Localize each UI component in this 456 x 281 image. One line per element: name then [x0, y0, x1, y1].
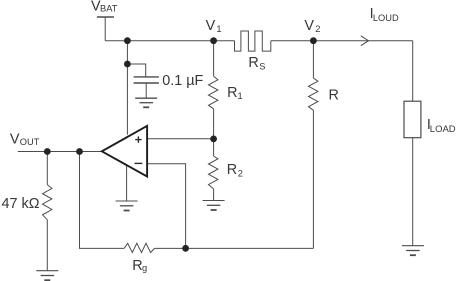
svg-text:V: V — [304, 18, 314, 34]
svg-text:0.1 µF: 0.1 µF — [162, 73, 203, 89]
svg-text:2: 2 — [238, 168, 243, 178]
svg-text:V: V — [10, 131, 20, 147]
svg-text:47 kΩ: 47 kΩ — [2, 196, 40, 212]
svg-text:2: 2 — [315, 24, 320, 34]
svg-text:g: g — [142, 263, 147, 273]
svg-text:1: 1 — [216, 24, 221, 34]
svg-text:R: R — [248, 55, 258, 71]
svg-text:OUT: OUT — [20, 137, 40, 147]
svg-text:1: 1 — [238, 91, 243, 101]
svg-text:R: R — [227, 85, 237, 101]
svg-text:LOUD: LOUD — [373, 13, 399, 23]
svg-text:V: V — [206, 18, 216, 34]
svg-text:R: R — [329, 87, 339, 103]
svg-text:LOAD: LOAD — [430, 124, 456, 135]
svg-text:BAT: BAT — [100, 3, 118, 13]
svg-text:S: S — [259, 61, 265, 71]
svg-text:R: R — [227, 162, 237, 178]
